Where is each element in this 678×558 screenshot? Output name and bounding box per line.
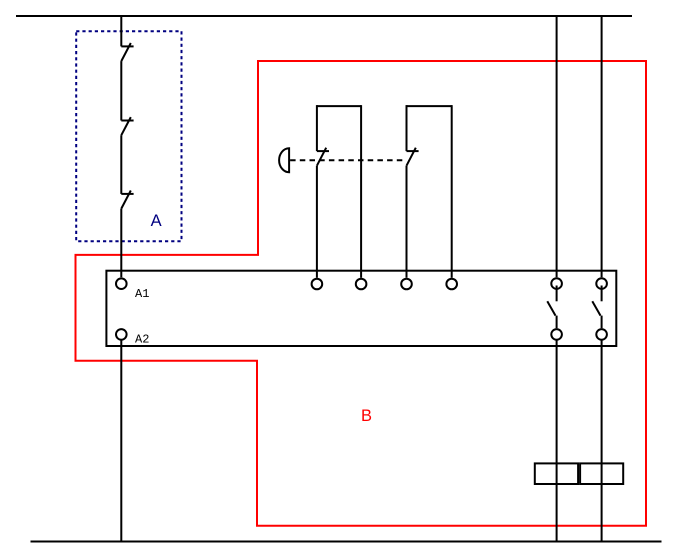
push-button actuator head (half disc) — [279, 148, 289, 172]
terminal A1 — [116, 278, 127, 289]
terminal A2 — [116, 329, 127, 340]
label B — [361, 407, 372, 425]
push-button S1 bridge (top bar) — [317, 105, 361, 107]
region B outline (red) — [76, 61, 647, 526]
push-button S1 contact — [317, 148, 329, 166]
svg-text:A2: A2 — [135, 332, 149, 346]
wire: S1 left leg lower to terminal 1 — [316, 166, 318, 278]
wire: K2 bottom terminal to bottom rail — [601, 341, 603, 542]
wire: top supply rail — [16, 15, 632, 17]
push-button S2 contact — [407, 148, 419, 166]
terminal: K1 top — [551, 278, 562, 289]
wire: terminal A2 down to bottom rail — [120, 341, 122, 542]
wire: bottom supply rail — [31, 541, 662, 543]
wire: S2 right leg to terminal 4 — [451, 105, 453, 278]
svg-text:A: A — [151, 212, 162, 230]
wire: S2 left leg lower to terminal 3 — [406, 166, 408, 278]
circuit breaker pole 2 — [121, 117, 133, 135]
wire: breaker pole 3 to terminal A1 — [120, 209, 122, 278]
NO contact K2 — [592, 286, 601, 329]
mechanical link (dashed) between actuator, S1 and S2 — [290, 159, 406, 161]
terminal: K2 top — [596, 278, 607, 289]
NO contact K1 — [547, 286, 556, 329]
wire: S1 right leg to terminal 2 — [360, 105, 362, 278]
push-button S2 bridge (top bar) — [407, 105, 452, 107]
wire: top rail to NO contact K1 — [556, 16, 558, 277]
wire: top rail to NO contact K2 — [601, 16, 603, 277]
overload element F1 (box on K1 wire) — [535, 463, 578, 484]
terminal 4 — [446, 279, 457, 290]
wire: left phase from top rail to breaker pole 1 — [120, 16, 122, 46]
wire: S2 left leg upper — [406, 105, 408, 151]
terminal: K1 bottom — [551, 329, 562, 340]
wire: S1 left leg upper — [316, 105, 318, 151]
wire: K1 bottom terminal to bottom rail — [556, 341, 558, 542]
label A1 — [135, 287, 149, 301]
svg-text:A1: A1 — [135, 287, 149, 301]
circuit breaker pole 1 — [121, 43, 133, 61]
label A — [151, 212, 162, 230]
terminal 3 — [401, 279, 412, 290]
terminal: K2 bottom — [596, 329, 607, 340]
label A2 — [135, 332, 149, 346]
terminal 2 — [356, 279, 367, 290]
overload element F2 (box on K2 wire) — [580, 463, 623, 484]
contactor body (black rectangle) — [106, 271, 616, 346]
wire: between breaker pole 2 and pole 3 — [120, 135, 122, 194]
wire: between breaker pole 1 and pole 2 — [120, 61, 122, 120]
svg-text:B: B — [361, 407, 372, 425]
terminal 1 (coil circuit) — [312, 279, 323, 290]
circuit breaker pole 3 — [121, 191, 133, 209]
enclosure A: blue dotted boundary box — [76, 31, 181, 241]
